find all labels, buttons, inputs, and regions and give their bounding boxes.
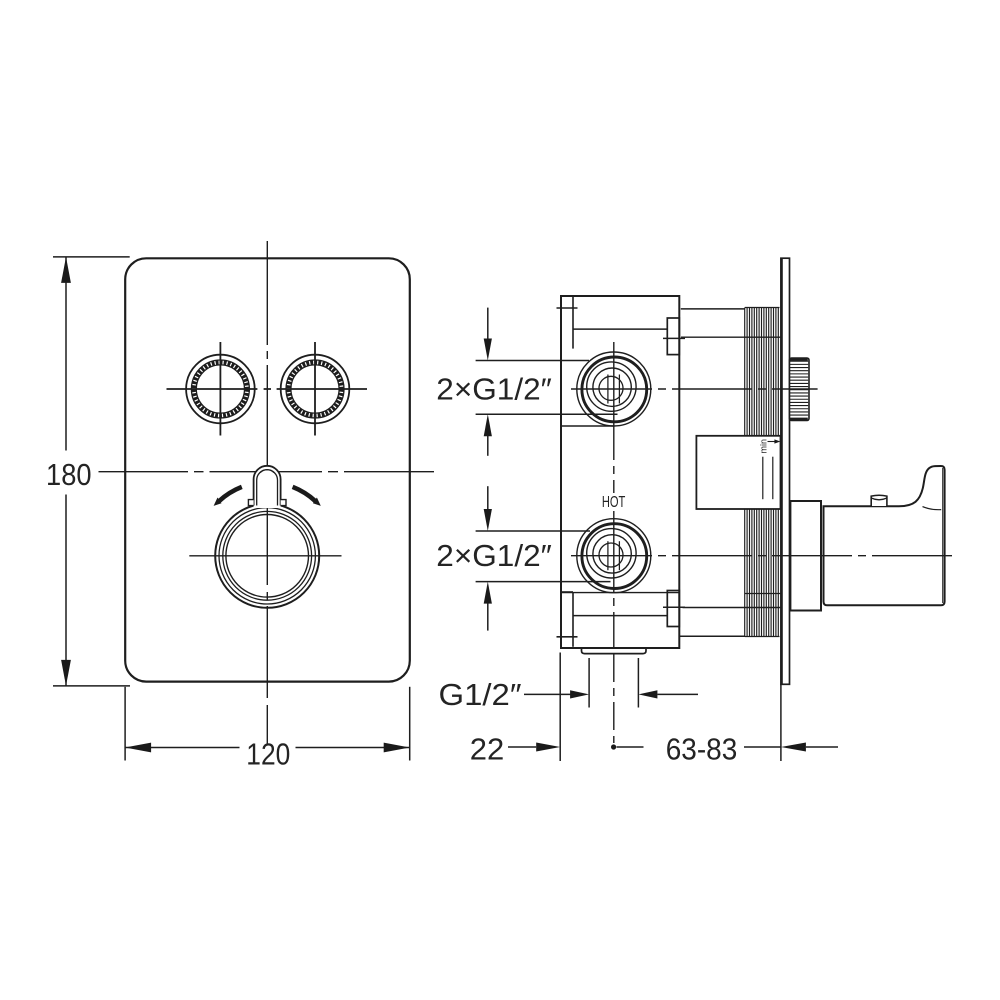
front view: wall plate outline bbox=[125, 258, 410, 681]
side view: handle fillet arc bbox=[923, 507, 942, 510]
dimension 63-83: lines and arrow bbox=[617, 746, 781, 748]
dimension 22: extension line bbox=[559, 653, 561, 762]
dimension G1/2 bottom outlet: extension lines bbox=[588, 658, 590, 708]
front view: control knob second outline circle bbox=[219, 508, 315, 604]
front view: control knob outer circle bbox=[215, 504, 319, 608]
side view: bottom inlet port G1/2 bbox=[577, 519, 651, 593]
side view: centerline end dot bbox=[611, 744, 616, 749]
svg-text:min: min bbox=[759, 439, 769, 454]
side view: top port horizontal centerline bbox=[571, 388, 818, 390]
side view: mounting ticks on left edge bbox=[557, 307, 578, 309]
dimension top 2xG1/2: extension lines bbox=[476, 360, 589, 362]
side view: right mounting tab bottom bbox=[667, 591, 679, 627]
side view: valve body outline bbox=[561, 296, 679, 648]
front view: knob lever stem inner line bbox=[257, 470, 278, 506]
side view: handle safety pin bbox=[871, 495, 887, 506]
front view: knob lever stem (white masks circles) bbox=[254, 466, 281, 508]
front view: horizontal centerline bbox=[99, 471, 435, 473]
side view: finished wall plate bbox=[781, 258, 790, 684]
side view: body top-left lug line bbox=[572, 296, 574, 349]
side view: bottom port horizontal centerline bbox=[571, 555, 952, 557]
svg-text:2×G1/2″: 2×G1/2″ bbox=[436, 538, 552, 573]
side view: handle right edge inner line bbox=[942, 468, 944, 603]
dimension 120: extension lines bbox=[124, 687, 126, 761]
side view: body bottom-left lug line bbox=[572, 592, 574, 647]
side view: body inner step lines bbox=[573, 328, 667, 330]
dimension 180: dimension line with arrows bbox=[65, 257, 67, 686]
front view: buttons horizontal crosshair line bbox=[167, 388, 368, 390]
side view: min arrow bbox=[768, 441, 777, 443]
dimension 22: line and arrow bbox=[508, 746, 536, 748]
front view: right button vertical crosshair bbox=[314, 342, 316, 436]
side view: right mounting tab top bbox=[667, 318, 679, 355]
svg-text:63-83: 63-83 bbox=[666, 732, 738, 767]
front view: left rotation arrow bbox=[219, 487, 242, 501]
front view: right rotation arrow bbox=[293, 487, 316, 501]
side view: bottom outlet stub bbox=[582, 649, 647, 654]
side view: port boss tangent lines bbox=[561, 425, 614, 427]
side view: cartridge depth marker lines bbox=[762, 457, 764, 500]
front view: knob horizontal crosshair bbox=[189, 555, 341, 557]
side view: connecting cylinder lines bbox=[681, 308, 745, 310]
dimension G1/2: line and arrows bbox=[524, 693, 572, 695]
dimension bottom 2xG1/2: arrows bbox=[487, 486, 489, 510]
side view: handle escutcheon bbox=[790, 501, 821, 611]
svg-text:180: 180 bbox=[46, 457, 92, 492]
front view: knob stem left shoulder notch bbox=[248, 500, 253, 506]
svg-text:120: 120 bbox=[246, 736, 290, 771]
front view: vertical centerline bbox=[266, 241, 268, 744]
side view: knurled temperature knob bbox=[790, 358, 810, 421]
front view: knob stem right shoulder notch bbox=[281, 500, 286, 506]
svg-text:HOT: HOT bbox=[602, 494, 626, 511]
dimension 63-83: plate extension line bbox=[780, 684, 782, 761]
front view: right push button bbox=[281, 355, 350, 424]
svg-text:2×G1/2″: 2×G1/2″ bbox=[436, 371, 552, 406]
front view: left button vertical crosshair bbox=[219, 342, 221, 436]
svg-text:G1/2″: G1/2″ bbox=[439, 677, 522, 712]
dimension 180: extension lines bbox=[53, 256, 130, 258]
dimension top 2xG1/2: arrows bbox=[487, 308, 489, 340]
side view: top inlet port G1/2 bbox=[577, 352, 651, 426]
front view: left push button bbox=[186, 355, 255, 424]
side view: lever handle body bbox=[824, 466, 945, 605]
dimension bottom 2xG1/2: extension lines bbox=[476, 530, 590, 532]
front view: knob face circles bbox=[223, 511, 312, 600]
side view: vertical centerline through ports bbox=[613, 342, 615, 743]
svg-text:22: 22 bbox=[470, 732, 505, 767]
front view: knob stem top small arc bbox=[260, 470, 273, 473]
side view: cartridge block bbox=[696, 436, 780, 509]
dimension 120: dimension line with arrows bbox=[125, 747, 410, 749]
side view: threaded sleeve stripes bbox=[745, 308, 779, 637]
